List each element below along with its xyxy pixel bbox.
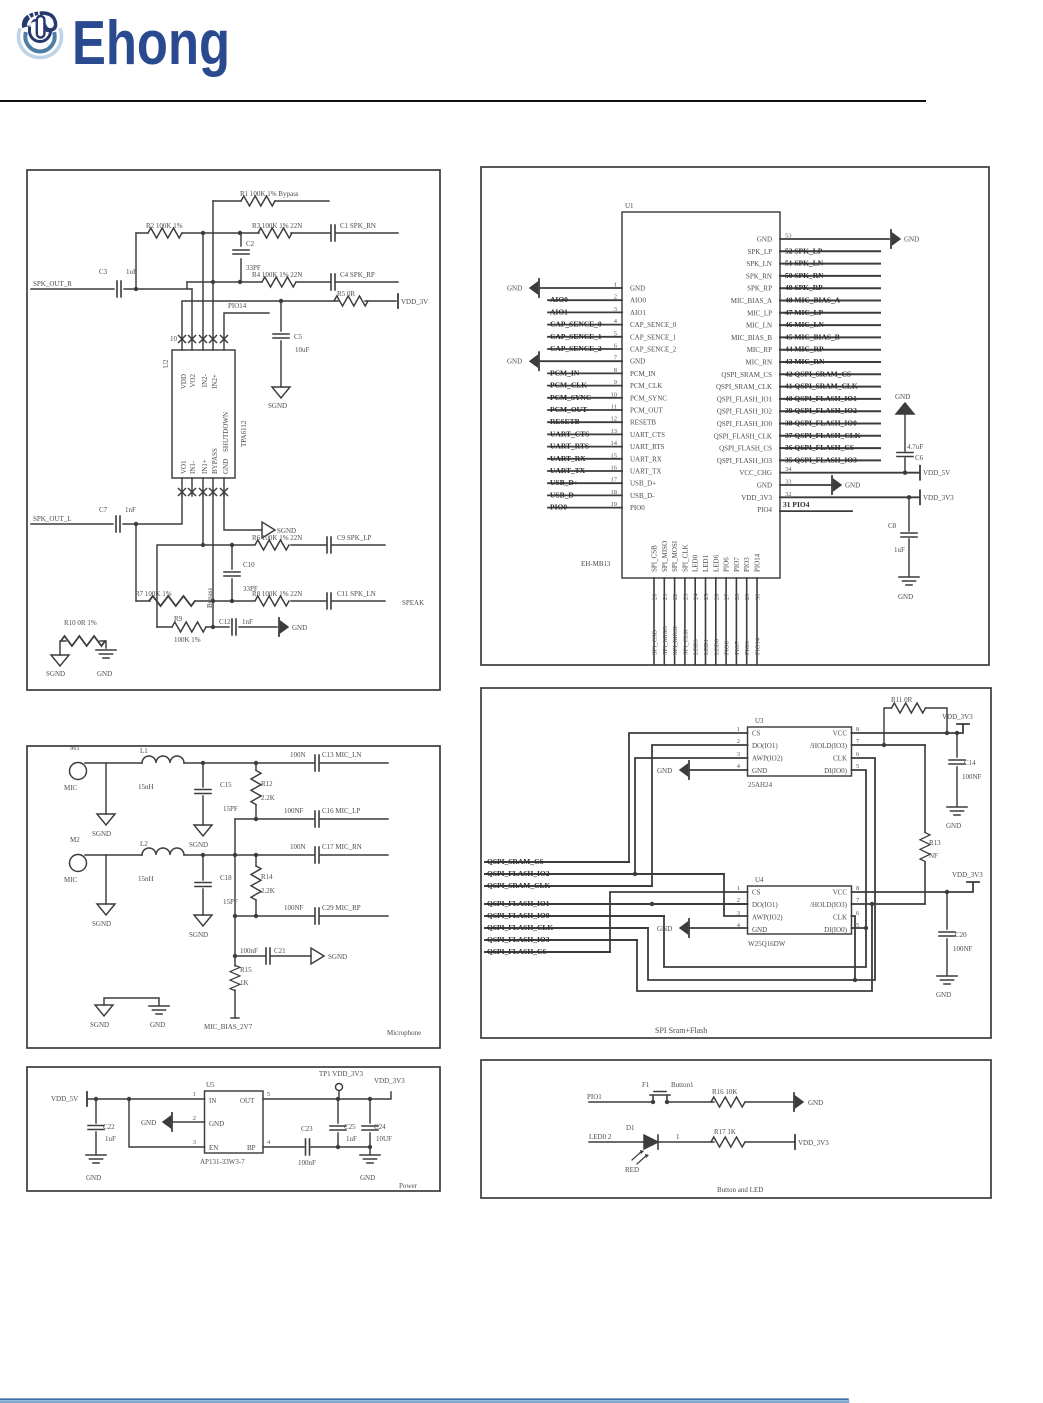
wire GND pin 7	[540, 360, 622, 362]
svg-text:1: 1	[737, 726, 740, 733]
svg-text:DO(IO1): DO(IO1)	[752, 742, 778, 750]
svg-text:44 MIC_RP: 44 MIC_RP	[785, 345, 824, 354]
microphone M1	[70, 763, 87, 780]
svg-text:SPK_OUT_R: SPK_OUT_R	[33, 280, 72, 288]
wire bottom PIO6	[725, 578, 727, 664]
svg-text:QSPI_FLASH_CLK: QSPI_FLASH_CLK	[487, 923, 553, 932]
wire SPK_OUT_L	[31, 496, 182, 601]
wire D1 to R17	[658, 1141, 714, 1143]
svg-text:SPI_MOSI: SPI_MOSI	[672, 626, 679, 655]
node MIC_BIAS_2V7	[231, 1017, 239, 1019]
ground SGND	[95, 1005, 113, 1016]
wire M1 row MIC_LN	[85, 762, 388, 764]
capacitor C24	[369, 1099, 371, 1154]
svg-text:VDD_3V3: VDD_3V3	[942, 713, 973, 721]
junction	[201, 761, 205, 765]
wire SPK_OUT_R	[31, 233, 192, 289]
svg-text:IN2+: IN2+	[211, 374, 219, 389]
svg-text:BP: BP	[247, 1144, 256, 1152]
svg-text:SPEAK: SPEAK	[402, 599, 424, 607]
svg-text:GND: GND	[507, 285, 522, 293]
svg-text:1K: 1K	[240, 979, 249, 987]
svg-text:VDD_3V3: VDD_3V3	[952, 871, 983, 879]
svg-text:R3 100K 1% 22N: R3 100K 1% 22N	[252, 222, 302, 230]
svg-text:GND: GND	[360, 1174, 375, 1182]
svg-text:C14: C14	[964, 759, 976, 767]
wire net QSPI_FLASH_IO2	[780, 410, 880, 412]
wire bus verticals	[203, 201, 241, 350]
svg-text:15PF: 15PF	[223, 805, 238, 813]
svg-text:8: 8	[856, 726, 859, 733]
inductor L1	[142, 756, 184, 763]
svg-text:MIC_RP: MIC_RP	[747, 346, 772, 354]
wire VDD_5V rail	[87, 1098, 205, 1100]
svg-text:QSPI_FLASH_IO2: QSPI_FLASH_IO2	[717, 408, 773, 416]
svg-text:CLK: CLK	[833, 914, 847, 922]
svg-text:GND: GND	[752, 926, 767, 934]
junction	[233, 914, 237, 918]
ground GND above C6	[896, 403, 914, 414]
svg-text:UART_TX: UART_TX	[630, 468, 661, 476]
svg-text:QSPI_FLASH_IO1: QSPI_FLASH_IO1	[717, 395, 773, 403]
capacitor C12	[232, 619, 236, 635]
wire QSPI_SRAM_CLK riser	[652, 745, 748, 886]
svg-text:C15: C15	[220, 781, 232, 789]
svg-text:C23: C23	[301, 1125, 313, 1133]
wire R2 row	[136, 232, 398, 234]
svg-text:4: 4	[267, 1139, 271, 1146]
svg-text:GND: GND	[898, 593, 913, 601]
svg-text:15nH: 15nH	[138, 783, 154, 791]
svg-text:27: 27	[724, 593, 731, 600]
svg-text:41 QSPI_SRAM_CLK: 41 QSPI_SRAM_CLK	[785, 382, 858, 391]
wire net MIC_LP	[780, 312, 880, 314]
svg-text:C1 SPK_RN: C1 SPK_RN	[340, 222, 376, 230]
svg-text:C10: C10	[243, 561, 255, 569]
svg-text:3: 3	[737, 751, 740, 758]
junction	[211, 280, 215, 284]
svg-text:7: 7	[856, 897, 860, 904]
ground GND arrow U3	[690, 769, 748, 771]
svg-text:EN: EN	[209, 1144, 218, 1152]
svg-text:4.7uF: 4.7uF	[907, 443, 923, 451]
svg-text:100N: 100N	[290, 751, 306, 759]
ground GND arrow	[794, 1093, 803, 1111]
svg-text:QSPI_SRAM_CS: QSPI_SRAM_CS	[721, 371, 772, 379]
svg-text:6: 6	[856, 910, 860, 917]
svg-text:PIO14: PIO14	[755, 637, 762, 655]
svg-text:CAP_SENCE_0: CAP_SENCE_0	[630, 321, 677, 329]
svg-text:EH-MB13: EH-MB13	[581, 560, 611, 568]
svg-text:26: 26	[713, 593, 720, 600]
svg-text:VDD_3V: VDD_3V	[401, 298, 428, 306]
svg-text:TPA6112: TPA6112	[240, 420, 248, 447]
svg-text:C25: C25	[344, 1123, 356, 1131]
wire net QSPI_FLASH_IO0	[485, 915, 664, 917]
svg-text:PIO0: PIO0	[550, 503, 567, 512]
wire R9 row	[157, 626, 277, 628]
ground SGND below M2	[105, 855, 107, 904]
wire net QSPI_SRAM_CS	[485, 861, 629, 863]
svg-text:PIO3: PIO3	[744, 641, 751, 655]
junction	[201, 853, 205, 857]
svg-text:LED6: LED6	[712, 554, 720, 572]
svg-text:Microphone: Microphone	[387, 1029, 421, 1037]
node VDD_3V	[397, 294, 399, 308]
svg-text:SPK_RN: SPK_RN	[746, 272, 772, 280]
svg-text:PIO1: PIO1	[587, 1093, 602, 1101]
svg-text:CS: CS	[752, 730, 761, 738]
svg-text:C12: C12	[219, 618, 231, 626]
svg-text:LED1: LED1	[702, 554, 710, 572]
wire net MIC_RP	[780, 349, 880, 351]
wire net QSPI_FLASH_IO3	[485, 939, 637, 941]
svg-text:SGND: SGND	[90, 1021, 109, 1029]
svg-text:SGND: SGND	[92, 830, 111, 838]
svg-text:38 QSPI_FLASH_IO0: 38 QSPI_FLASH_IO0	[785, 419, 857, 428]
resistor R6	[255, 540, 289, 550]
svg-text:PCM_IN: PCM_IN	[550, 368, 580, 377]
svg-text:AWP(IO2): AWP(IO2)	[752, 755, 783, 763]
wire HOLD U3 row	[852, 744, 926, 746]
svg-text:RESETB: RESETB	[630, 419, 656, 427]
capacitor C29	[315, 908, 319, 924]
svg-text:SPK_OUT_L: SPK_OUT_L	[33, 515, 72, 523]
wire bottom LED0	[694, 578, 696, 664]
svg-text:1: 1	[193, 1091, 196, 1098]
wire net QSPI_FLASH_IO0	[780, 423, 880, 425]
svg-text:CLK: CLK	[833, 755, 847, 763]
svg-text:Ehong: Ehong	[72, 9, 230, 78]
capacitor C7	[116, 516, 120, 532]
junction DI U4	[664, 770, 866, 967]
wire button to R16	[667, 1101, 714, 1103]
svg-text:PIO6: PIO6	[724, 641, 731, 655]
svg-text:GND: GND	[936, 991, 951, 999]
wire MIC_LP row	[235, 818, 388, 820]
junction	[134, 522, 138, 526]
svg-text:R16 10K: R16 10K	[712, 1088, 737, 1096]
wire net SPK_RP	[780, 287, 880, 289]
wire net CAP_SENCE_1	[548, 336, 622, 338]
wire net PCM_OUT	[548, 409, 622, 411]
junction	[233, 954, 237, 958]
wire QSPI_SRAM_CS riser	[629, 733, 748, 862]
svg-text:MIC: MIC	[64, 784, 78, 792]
ground GND below C8	[899, 577, 919, 585]
svg-text:UART_CTS: UART_CTS	[550, 429, 589, 438]
svg-text:IN2-: IN2-	[201, 373, 209, 387]
svg-text:MIC_LP: MIC_LP	[747, 309, 772, 317]
svg-text:GND: GND	[757, 236, 772, 244]
ground GND below C14	[947, 807, 967, 815]
svg-text:UART_RTS: UART_RTS	[630, 443, 665, 451]
svg-text:SPI_MOSI: SPI_MOSI	[671, 540, 679, 572]
wire net RESETB	[548, 421, 622, 423]
svg-text:AWP(IO2): AWP(IO2)	[752, 914, 783, 922]
capacitor C18	[202, 855, 204, 915]
ground GND arrow pin 33	[832, 476, 841, 494]
svg-text:UART_TX: UART_TX	[550, 466, 586, 475]
ground GND below C20	[937, 976, 957, 984]
svg-text:R5 0R: R5 0R	[337, 290, 355, 298]
wire bottom PIO14	[756, 578, 758, 664]
wire net QSPI_FLASH_CS	[485, 951, 610, 953]
wire net PCM_IN	[548, 372, 622, 374]
svg-text:21: 21	[662, 594, 669, 601]
ground SGND arrow	[311, 948, 324, 964]
svg-text:OUT: OUT	[240, 1097, 255, 1105]
junction	[134, 287, 138, 291]
svg-text:F1: F1	[642, 1081, 650, 1089]
capacitor C22	[95, 1099, 97, 1154]
svg-text:QSPI_FLASH_IO2: QSPI_FLASH_IO2	[487, 869, 550, 878]
junction	[201, 543, 205, 547]
svg-text:R4 100K 1% 22N: R4 100K 1% 22N	[252, 271, 302, 279]
svg-text:VDD_5V: VDD_5V	[923, 469, 950, 477]
wire QSPI_FLASH_IO2 risers	[635, 758, 748, 916]
wire net PCM_SYNC	[548, 397, 622, 399]
svg-text:PIO7: PIO7	[733, 557, 741, 572]
resistor R12	[255, 763, 257, 819]
svg-text:AP131-33W3-7: AP131-33W3-7	[200, 1158, 245, 1166]
svg-text:USB_D-: USB_D-	[550, 490, 577, 499]
wire MIC_RP row	[235, 915, 388, 917]
svg-text:QSPI_SRAM_CS: QSPI_SRAM_CS	[487, 857, 544, 866]
svg-text:48 MIC_BIAS_A: 48 MIC_BIAS_A	[785, 296, 841, 305]
ground GND below C24	[360, 1155, 380, 1163]
wire net MIC_BIAS_B	[780, 336, 880, 338]
svg-text:QSPI_SRAM_CLK: QSPI_SRAM_CLK	[487, 881, 551, 890]
svg-text:QSPI_FLASH_IO0: QSPI_FLASH_IO0	[717, 420, 773, 428]
IC U3 25AH24	[748, 727, 852, 776]
svg-text:DI(IO0): DI(IO0)	[824, 926, 848, 934]
svg-text:GND: GND	[507, 358, 522, 366]
op-amp U2 TPA6112	[172, 350, 235, 478]
svg-text:GND: GND	[757, 482, 772, 490]
svg-text:C2: C2	[246, 240, 255, 248]
wire net UART_RX	[548, 458, 622, 460]
svg-text:PCM_OUT: PCM_OUT	[630, 407, 663, 415]
svg-text:C21: C21	[274, 947, 286, 955]
svg-text:28: 28	[734, 594, 741, 601]
capacitor C23	[306, 1139, 310, 1155]
wire R1 row	[213, 200, 329, 202]
svg-text:UART_RX: UART_RX	[630, 455, 662, 463]
svg-text:6: 6	[856, 751, 860, 758]
svg-text:QSPI_SRAM_CLK: QSPI_SRAM_CLK	[716, 383, 772, 391]
svg-text:35 QSPI_FLASH_IO3: 35 QSPI_FLASH_IO3	[785, 455, 857, 464]
svg-text:GND: GND	[630, 285, 645, 293]
svg-text:RESETB: RESETB	[550, 417, 580, 426]
wire bottom SPI_CSB	[653, 578, 655, 664]
svg-text:PCM_SYNC: PCM_SYNC	[630, 394, 667, 402]
svg-text:8: 8	[856, 885, 859, 892]
wire net UART_RTS	[548, 446, 622, 448]
svg-text:UART_RX: UART_RX	[550, 454, 586, 463]
svg-text:100NF: 100NF	[953, 945, 973, 953]
wire net QSPI_FLASH_IO1	[485, 903, 748, 905]
wire BP row	[263, 1146, 370, 1148]
resistor R4	[262, 277, 296, 287]
svg-text:15nH: 15nH	[138, 875, 154, 883]
svg-text:PIO14: PIO14	[228, 302, 247, 310]
svg-text:USB_D-: USB_D-	[630, 492, 655, 500]
wire bottom PIO3	[746, 578, 748, 664]
svg-text:R8 100K 1% 22N: R8 100K 1% 22N	[252, 590, 302, 598]
svg-text:25: 25	[703, 594, 710, 601]
node VDD_5V	[919, 466, 921, 480]
svg-text:AIO1: AIO1	[630, 309, 646, 317]
wire QSPI_FLASH_CS riser	[610, 892, 748, 952]
svg-text:2: 2	[737, 897, 740, 904]
junction	[211, 625, 215, 629]
svg-text:PCM_CLK: PCM_CLK	[630, 382, 662, 390]
svg-text:R1 100K 1% Bypass: R1 100K 1% Bypass	[240, 190, 299, 198]
wire net PIO0	[548, 507, 622, 509]
resistor R17	[711, 1137, 745, 1147]
svg-text:C7: C7	[99, 506, 108, 514]
svg-text:GND: GND	[630, 358, 645, 366]
svg-text:PIO0: PIO0	[630, 504, 645, 512]
svg-text:C6: C6	[915, 454, 924, 462]
svg-text:10uF: 10uF	[295, 346, 310, 354]
wire bias row	[235, 955, 311, 957]
header rule	[0, 100, 925, 102]
svg-text:SPI_CLK: SPI_CLK	[682, 629, 689, 655]
wire net SPK_LN	[780, 263, 880, 265]
ground SGND arrow	[262, 522, 275, 538]
svg-text:1uF: 1uF	[105, 1135, 116, 1143]
svg-text:52 SPK_LP: 52 SPK_LP	[785, 246, 823, 255]
resistor R2	[148, 228, 182, 238]
wire bottom LED1	[705, 578, 707, 664]
svg-text:43 MIC_RN: 43 MIC_RN	[785, 357, 825, 366]
svg-text:31 PIO4: 31 PIO4	[783, 500, 810, 509]
svg-text:SPI_MISO: SPI_MISO	[662, 626, 669, 655]
wire net MIC_LN	[780, 324, 880, 326]
wire QSPI_FLASH_CLK loop	[648, 758, 875, 980]
svg-text:QSPI_FLASH_CS: QSPI_FLASH_CS	[487, 947, 547, 956]
svg-text:MIC_RN: MIC_RN	[746, 359, 772, 367]
svg-text:1uF: 1uF	[894, 546, 905, 554]
wire net CAP_SENCE_2	[548, 348, 622, 350]
svg-text:SGND: SGND	[92, 920, 111, 928]
junction	[279, 299, 283, 303]
wire R4 row	[187, 281, 398, 283]
svg-text:Bypass: Bypass	[206, 588, 214, 609]
capacitor C11	[327, 593, 331, 609]
wire VDD_3V row	[182, 301, 396, 350]
svg-text:2.2K: 2.2K	[261, 794, 275, 802]
svg-text:M1: M1	[70, 744, 80, 752]
svg-text:C18: C18	[220, 874, 232, 882]
footer blue bar	[0, 1398, 848, 1400]
wire net SPK_LP	[780, 250, 880, 252]
capacitor C8	[908, 497, 910, 576]
ground GND arrow pin 1	[530, 279, 539, 297]
svg-text:GND: GND	[141, 1119, 156, 1127]
wire net QSPI_SRAM_CLK	[485, 885, 652, 887]
wire net QSPI_FLASH_IO1	[780, 398, 880, 400]
svg-text:100K 1%: 100K 1%	[174, 636, 201, 644]
svg-text:SPK_LN: SPK_LN	[746, 260, 772, 268]
wire R16 to GND	[745, 1101, 793, 1103]
svg-text:SGND: SGND	[189, 931, 208, 939]
wire net UART_CTS	[548, 433, 622, 435]
wire bottom SPI_MISO	[663, 578, 665, 664]
svg-text:C22: C22	[103, 1123, 115, 1131]
wire net AIO1	[548, 311, 622, 313]
box border amplifier block	[27, 170, 440, 690]
svg-text:IN: IN	[209, 1097, 216, 1105]
svg-text:37 QSPI_FLASH_CLK: 37 QSPI_FLASH_CLK	[785, 431, 861, 440]
svg-text:LED0 2: LED0 2	[589, 1133, 612, 1141]
svg-text:RED: RED	[625, 1166, 639, 1174]
svg-text:C29 MIC_RP: C29 MIC_RP	[322, 904, 361, 912]
svg-text:Button1: Button1	[671, 1081, 694, 1089]
svg-text:C20: C20	[955, 931, 967, 939]
regulator U5 AP131	[205, 1091, 264, 1153]
svg-text:R13: R13	[929, 839, 941, 847]
svg-text:SPI_MISO: SPI_MISO	[661, 541, 669, 572]
svg-text:1nF: 1nF	[125, 506, 136, 514]
svg-text:GND: GND	[895, 393, 910, 401]
svg-text:CAP_SENCE_1: CAP_SENCE_1	[630, 333, 677, 341]
pin no-connect marks bottom	[179, 489, 186, 496]
svg-text:1: 1	[737, 885, 740, 892]
resistor R5	[334, 296, 368, 306]
svg-text:C8: C8	[888, 522, 897, 530]
capacitor C20	[946, 892, 948, 975]
wire VCC U3 to VDD_3V3	[852, 724, 970, 733]
svg-text:PCM_IN: PCM_IN	[630, 370, 656, 378]
svg-text:R7 100K 1%: R7 100K 1%	[135, 590, 172, 598]
svg-text:AIO0: AIO0	[550, 295, 568, 304]
box border main IC block	[481, 167, 989, 665]
svg-text:VO2: VO2	[189, 374, 197, 388]
wire net UART_TX	[548, 470, 622, 472]
svg-text:QSPI_FLASH_CLK: QSPI_FLASH_CLK	[714, 432, 772, 440]
svg-text:C16 MIC_LP: C16 MIC_LP	[322, 807, 360, 815]
svg-text:CAP_SENCE_1: CAP_SENCE_1	[550, 332, 602, 341]
svg-text:MIC: MIC	[64, 876, 78, 884]
svg-text:34: 34	[785, 466, 792, 473]
svg-text:U1: U1	[625, 202, 634, 210]
svg-text:SPI_CSB: SPI_CSB	[652, 629, 659, 655]
svg-text:PIO7: PIO7	[734, 641, 741, 655]
wire net MIC_BIAS_A	[780, 300, 880, 302]
wire R7 R8 row	[136, 600, 385, 602]
svg-text:1uF: 1uF	[126, 268, 137, 276]
wire net QSPI_FLASH_IO3	[780, 459, 880, 461]
capacitor C4	[331, 274, 335, 290]
svg-text:SPI_CLK: SPI_CLK	[681, 544, 689, 572]
ground SGND	[272, 387, 290, 398]
svg-text:39 QSPI_FLASH_IO2: 39 QSPI_FLASH_IO2	[785, 406, 857, 415]
svg-text:100nF: 100nF	[240, 947, 258, 955]
capacitor C13	[315, 755, 319, 771]
capacitor C21	[266, 948, 270, 964]
ground GND arrow pin2	[173, 1121, 205, 1123]
wire net QSPI_FLASH_CS	[780, 447, 880, 449]
ground SGND below C18	[194, 915, 212, 926]
svg-text:Power: Power	[399, 1182, 418, 1190]
wire GND pin 53	[780, 238, 889, 240]
svg-text:100NF: 100NF	[284, 807, 304, 815]
svg-text:C17 MIC_RN: C17 MIC_RN	[322, 843, 362, 851]
svg-text:M2: M2	[70, 836, 80, 844]
